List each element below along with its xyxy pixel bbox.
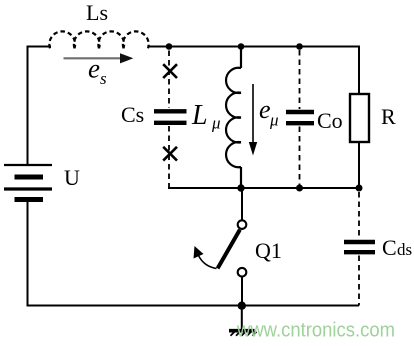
node junction dot at R bottom / Cds top	[356, 185, 363, 192]
svg-text:e: e	[259, 95, 271, 124]
inductor Lmu vertical coil	[226, 47, 241, 189]
svg-text:s: s	[100, 69, 107, 88]
svg-text:U: U	[64, 165, 80, 190]
label e_s	[88, 54, 107, 89]
label e_mu	[259, 95, 279, 130]
label Co	[317, 108, 343, 133]
capacitor Co branch dashed wire upper	[299, 50, 301, 109]
inductor Ls (dashed coil)	[49, 31, 148, 48]
wire right vertical top (to R)	[358, 46, 360, 95]
svg-text:ds: ds	[397, 240, 412, 259]
node junction dot at Co top	[296, 43, 303, 50]
wire top rail right segment	[148, 46, 359, 48]
label U	[64, 165, 80, 190]
wire left vertical bottom (battery - to bottom rail)	[27, 202, 29, 307]
wire right vertical bottom (R to middle rail)	[358, 142, 360, 188]
capacitor Cs branch dashed wire upper	[168, 51, 170, 109]
label Q1	[255, 238, 282, 263]
capacitor Cds dashed wire upper	[358, 192, 360, 238]
label Lmu	[191, 100, 221, 133]
svg-text:Co: Co	[317, 108, 343, 133]
wire left vertical top (battery + to top rail)	[27, 47, 29, 165]
label Ls	[86, 0, 108, 25]
svg-text:μ: μ	[269, 111, 279, 130]
node junction dot at Lmu top	[238, 43, 245, 50]
X mark lower on Cs branch	[163, 147, 177, 161]
watermark www.cntronics.com	[236, 319, 395, 342]
switch Q1 top contact circle	[238, 220, 247, 229]
svg-text:www.cntronics.com: www.cntronics.com	[236, 319, 395, 342]
capacitor Cds dashed wire lower	[358, 256, 360, 306]
switch Q1 rotation arrow	[194, 246, 217, 269]
node junction dot at Co bottom	[296, 185, 303, 192]
switch Q1 bottom contact circle	[238, 268, 247, 277]
wire middle rail	[168, 187, 359, 189]
svg-text:Q1: Q1	[255, 238, 282, 263]
ground	[229, 306, 257, 336]
resistor R	[350, 94, 369, 142]
capacitor Cds plates	[344, 242, 375, 252]
switch Q1 wire from middle rail	[241, 188, 243, 220]
svg-text:R: R	[381, 104, 396, 129]
node junction dot at Cs top	[166, 43, 173, 50]
capacitor Co branch dashed wire lower	[299, 127, 301, 189]
svg-text:μ: μ	[211, 114, 221, 133]
wire top rail left segment	[27, 46, 52, 48]
switch Q1 blade	[218, 230, 240, 269]
label Cds	[382, 235, 412, 260]
capacitor Cs branch dashed wire lower	[168, 126, 170, 188]
switch Q1 wire to bottom rail	[241, 277, 243, 306]
svg-text:C: C	[382, 235, 397, 260]
node junction dot at Lmu bottom	[237, 184, 244, 191]
battery U plates	[4, 165, 52, 200]
label Cs	[121, 102, 144, 127]
arrow e_s (gray arrow under Ls)	[64, 53, 134, 63]
arrow e_mu (downward arrow)	[249, 84, 257, 156]
svg-text:Cs: Cs	[121, 102, 144, 127]
capacitor Cs plates	[154, 111, 187, 123]
label R	[381, 104, 396, 129]
capacitor Co plates	[286, 112, 314, 123]
wire bottom rail	[27, 305, 360, 307]
node junction dot at switch bottom / ground	[238, 302, 246, 310]
svg-text:Ls: Ls	[86, 0, 108, 25]
svg-text:L: L	[191, 100, 208, 131]
svg-text:e: e	[88, 54, 100, 84]
X mark upper on Cs branch	[163, 64, 177, 78]
